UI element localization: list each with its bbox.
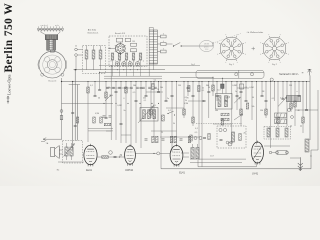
svg-text:EL41: EL41 [179, 172, 185, 175]
svg-text:20: 20 [243, 133, 245, 135]
svg-text:6: 6 [163, 33, 164, 35]
svg-text:150: 150 [260, 110, 263, 112]
svg-text:0,1: 0,1 [185, 97, 188, 99]
svg-text:70: 70 [157, 89, 159, 91]
svg-text:0,1: 0,1 [272, 98, 275, 100]
svg-text:5k: 5k [202, 88, 204, 90]
svg-text:2n: 2n [123, 110, 125, 112]
svg-text:a m k g f: a m k g f [41, 25, 48, 27]
svg-text:Fig.3: Fig.3 [191, 64, 195, 66]
svg-text:Ant.Trafo: Ant.Trafo [88, 29, 97, 32]
svg-text:Netzanschl. 220 V~: Netzanschl. 220 V~ [279, 73, 299, 76]
svg-text:UY41: UY41 [252, 173, 259, 176]
svg-text:6: 6 [124, 98, 125, 100]
svg-text:0,2: 0,2 [168, 110, 171, 112]
svg-text:5k: 5k [111, 95, 113, 97]
svg-text:0,5: 0,5 [133, 92, 136, 94]
svg-text:50: 50 [98, 98, 100, 100]
svg-text:1953: 1953 [205, 49, 209, 51]
svg-text:6: 6 [163, 41, 164, 43]
svg-text:Bereich II III: Bereich II III [115, 32, 126, 35]
svg-text:25: 25 [161, 132, 163, 134]
svg-text:50k: 50k [215, 110, 218, 112]
svg-text:40: 40 [297, 110, 299, 112]
svg-text:T.A.: T.A. [45, 142, 49, 145]
svg-text:0,1: 0,1 [90, 85, 93, 87]
svg-text:30: 30 [208, 87, 210, 89]
svg-text:Rö: Rö [57, 169, 59, 171]
svg-text:1n: 1n [235, 91, 237, 93]
svg-text:0,1: 0,1 [195, 128, 198, 130]
svg-text:UCH42: UCH42 [125, 169, 134, 172]
svg-text:6: 6 [163, 48, 164, 50]
svg-text:DBGM: DBGM [204, 44, 210, 46]
svg-text:gesch.: gesch. [204, 46, 209, 48]
svg-text:5k: 5k [173, 123, 175, 125]
svg-text:1M: 1M [178, 85, 181, 87]
svg-text:0,1: 0,1 [202, 90, 205, 92]
svg-text:2M: 2M [289, 85, 292, 87]
svg-text:10,7: 10,7 [210, 156, 214, 158]
svg-text:f.d. Wellenschalter: f.d. Wellenschalter [247, 31, 264, 34]
svg-text:Bereichssch.: Bereichssch. [88, 31, 99, 34]
svg-text:10k: 10k [160, 87, 163, 89]
svg-text:0,1: 0,1 [154, 79, 157, 81]
svg-text:100: 100 [133, 85, 136, 87]
svg-text:5k: 5k [185, 100, 187, 102]
svg-text:a: a [297, 91, 298, 93]
svg-text:50k: 50k [252, 106, 255, 108]
svg-text:Fig. 1: Fig. 1 [229, 64, 234, 66]
svg-text:0,5M: 0,5M [184, 103, 188, 105]
svg-text:EL41: EL41 [86, 169, 92, 172]
svg-text:0,1: 0,1 [144, 100, 147, 102]
svg-text:0,3M: 0,3M [232, 85, 237, 87]
svg-text:Loewe-Opta: Loewe-Opta [6, 74, 11, 95]
svg-text:Berlin 750 W: Berlin 750 W [3, 3, 15, 73]
svg-text:2n: 2n [167, 98, 169, 100]
svg-text:10,7: 10,7 [217, 90, 221, 92]
svg-text:e d c: e d c [55, 25, 59, 27]
svg-text:0,1: 0,1 [280, 98, 283, 100]
svg-text:0,5M: 0,5M [95, 113, 99, 115]
svg-text:Fig. 2: Fig. 2 [272, 64, 277, 66]
svg-text:≅: ≅ [301, 71, 303, 74]
svg-text:50: 50 [252, 97, 254, 99]
svg-text:2x: 2x [310, 156, 312, 158]
svg-text:Blaupunkt: Blaupunkt [48, 80, 56, 83]
svg-text:0,5M: 0,5M [117, 105, 122, 107]
svg-text:0,5: 0,5 [195, 132, 198, 134]
svg-text:0,5M: 0,5M [249, 87, 254, 89]
